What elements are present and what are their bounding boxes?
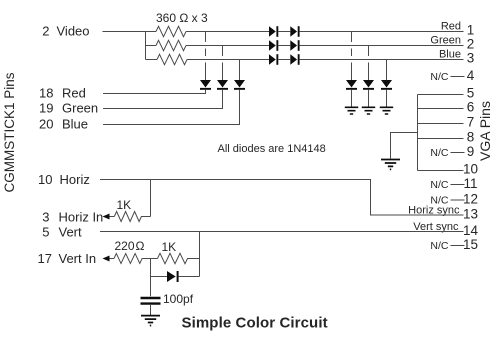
- N/C label pin 9: [430, 147, 449, 159]
- arrow horiz in: [103, 214, 110, 220]
- wire N/C dash pin 9: [451, 152, 465, 154]
- svg-text:360 Ω x 3: 360 Ω x 3: [156, 11, 208, 25]
- svg-text:N/C: N/C: [430, 179, 449, 191]
- wire vert right leg: [199, 232, 201, 277]
- N/C label pin 4: [430, 71, 449, 83]
- pin number 15: [463, 237, 478, 252]
- svg-text:All diodes are 1N4148: All diodes are 1N4148: [218, 143, 326, 155]
- clamp diode line1: [346, 80, 357, 90]
- wire clamp diode3 to ground: [386, 90, 388, 107]
- pin number 3: [467, 51, 475, 66]
- wire drop to clamp diode line2: [368, 46, 370, 81]
- pin number 11: [463, 176, 477, 191]
- svg-text:3: 3: [467, 51, 475, 66]
- diode pair line3: [269, 54, 300, 65]
- svg-text:18: 18: [39, 85, 53, 100]
- pin number 13: [463, 207, 478, 222]
- arrow vert in: [103, 256, 110, 262]
- ground (cap): [141, 316, 160, 326]
- wire between diode pair line1: [278, 31, 290, 33]
- net label Horiz sync: [408, 204, 460, 216]
- title Simple Color Circuit: [182, 315, 328, 332]
- svg-text:7: 7: [467, 115, 475, 130]
- svg-text:1: 1: [467, 23, 475, 38]
- wire line3 to VGA pin3: [300, 59, 464, 61]
- side label VGA Pins: [477, 101, 493, 161]
- value label 360 ohm x 3: [156, 11, 208, 25]
- wire drop to diode D1 (dashed over crossings): [205, 32, 207, 81]
- svg-text:2: 2: [42, 23, 49, 38]
- svg-text:Vert: Vert: [59, 224, 83, 239]
- wire between diode pair line2: [278, 45, 290, 47]
- pin label 17 Vert In: [38, 251, 97, 266]
- value label 1K (horiz): [117, 198, 132, 212]
- svg-text:Horiz In: Horiz In: [59, 210, 104, 225]
- svg-text:Green: Green: [62, 100, 98, 115]
- svg-text:19: 19: [39, 100, 53, 115]
- wire cap top lead: [150, 277, 152, 297]
- svg-text:4: 4: [467, 68, 475, 83]
- svg-text:Vert In: Vert In: [59, 251, 97, 266]
- pin number 7: [467, 115, 475, 130]
- wire pin 6: [418, 108, 464, 110]
- pin number 10: [463, 162, 478, 177]
- wire horiz line: [100, 180, 464, 216]
- value label 220 ohm: [115, 239, 145, 253]
- diode (vert clamp): [167, 271, 179, 282]
- resistor 220: [114, 254, 158, 264]
- pin label 10 Horiz: [38, 172, 90, 187]
- svg-text:N/C: N/C: [430, 147, 449, 159]
- wire N/C dash pin 15: [451, 245, 465, 247]
- wire video feed bus: [145, 32, 147, 60]
- wire N/C dash pin 11: [451, 184, 465, 186]
- pin label 20 Blue: [39, 116, 88, 131]
- svg-text:13: 13: [463, 207, 478, 222]
- clamp diode line3: [381, 80, 392, 90]
- clamp diode line2: [363, 80, 374, 90]
- pin number 8: [467, 130, 475, 145]
- diode D3 (to pin 20 Blue): [234, 80, 245, 90]
- N/C label pin 15: [430, 240, 449, 252]
- wire drop to diode D3: [239, 60, 241, 81]
- pin label 19 Green: [39, 100, 98, 115]
- wire video line: [103, 31, 157, 33]
- net label Red: [441, 20, 461, 32]
- wire line1 to VGA pin1: [300, 31, 464, 33]
- svg-text:11: 11: [463, 176, 477, 191]
- wire drop to clamp diode line1 (dashed over crossings): [351, 32, 353, 81]
- wire pin 10: [418, 170, 464, 172]
- svg-text:Blue: Blue: [62, 116, 88, 131]
- wire line2 to VGA pin2: [300, 45, 464, 47]
- svg-text:Horiz: Horiz: [60, 172, 90, 187]
- side label CGMMSTICK1 Pins: [2, 72, 17, 192]
- net label Green: [430, 34, 461, 46]
- pin number 5: [467, 86, 475, 101]
- svg-text:6: 6: [467, 100, 475, 115]
- wire R3 lead: [146, 59, 158, 61]
- svg-text:Red: Red: [441, 20, 461, 32]
- svg-text:8: 8: [467, 130, 475, 145]
- wire pin 7: [418, 123, 464, 125]
- wire line1 after resistor: [186, 31, 269, 33]
- svg-text:Blue: Blue: [439, 48, 461, 60]
- wire N/C dash pin 4: [451, 76, 465, 78]
- ground (clamp line2): [362, 107, 375, 114]
- diode D2 (to pin 19 Green): [217, 80, 228, 90]
- svg-text:CGMMSTICK1 Pins: CGMMSTICK1 Pins: [2, 72, 17, 192]
- wire clamp diode1 to ground: [351, 90, 353, 107]
- svg-text:220 Ω: 220 Ω: [115, 239, 145, 253]
- resistor 1K (vert): [158, 253, 200, 263]
- wire clamp diode row: [151, 259, 200, 277]
- wire diode D3 to Blue line: [103, 90, 240, 125]
- pin number 14: [463, 223, 479, 238]
- svg-text:1K: 1K: [117, 198, 132, 212]
- wire vert line: [100, 231, 464, 233]
- wire diode D1 to Red line: [103, 90, 206, 94]
- svg-text:10: 10: [38, 172, 52, 187]
- svg-text:Simple Color Circuit: Simple Color Circuit: [182, 315, 328, 332]
- wire line2 after resistor: [186, 45, 269, 47]
- wire bus ground branch: [391, 133, 418, 159]
- wire horiz tap: [150, 180, 152, 217]
- resistor 360 (blue line): [157, 54, 187, 64]
- svg-text:100pf: 100pf: [163, 292, 194, 306]
- svg-text:5: 5: [467, 86, 475, 101]
- svg-text:20: 20: [39, 116, 53, 131]
- wire R2 lead: [146, 45, 157, 47]
- resistor 1K (horiz in): [114, 212, 150, 222]
- net label Blue: [439, 48, 461, 60]
- diode pair line1: [269, 26, 300, 37]
- svg-text:3: 3: [42, 210, 49, 225]
- wire N/C dash pin 12: [451, 199, 465, 201]
- ground (clamp line3): [380, 107, 393, 114]
- wire drop to clamp diode line3: [386, 60, 388, 81]
- pin number 12: [463, 192, 478, 207]
- wire horiz in arrow lead: [104, 216, 114, 218]
- capacitor 100pf: [141, 298, 161, 304]
- svg-text:1K: 1K: [162, 240, 177, 254]
- svg-text:Green: Green: [430, 34, 461, 46]
- pin number 1: [467, 23, 475, 38]
- svg-text:Video: Video: [57, 23, 90, 38]
- svg-text:10: 10: [463, 162, 478, 177]
- svg-text:5: 5: [42, 224, 49, 239]
- value label 1K (vert): [162, 240, 177, 254]
- ground (VGA bus): [381, 160, 400, 170]
- svg-text:VGA Pins: VGA Pins: [477, 101, 493, 161]
- value label 100pf: [163, 292, 194, 306]
- wire pin 5: [418, 94, 464, 96]
- N/C label pin 12: [430, 195, 449, 207]
- resistor 360 (red line): [156, 26, 186, 36]
- net label Vert sync: [413, 221, 459, 233]
- pin label 18 Red: [39, 85, 86, 100]
- svg-text:14: 14: [463, 223, 479, 238]
- wire pin 8: [418, 138, 464, 140]
- ground (clamp line1): [345, 107, 358, 114]
- pin number 2: [467, 37, 475, 52]
- svg-text:N/C: N/C: [430, 240, 449, 252]
- svg-text:15: 15: [463, 237, 478, 252]
- resistor 360 (green line): [156, 40, 186, 50]
- pin label 3 Horiz In: [42, 210, 103, 225]
- svg-text:N/C: N/C: [430, 71, 449, 83]
- pin number 4: [467, 68, 475, 83]
- wire between diode pair line3: [278, 59, 290, 61]
- svg-text:2: 2: [467, 37, 475, 52]
- pin label 2 Video: [42, 23, 89, 38]
- wire line3 after resistor: [187, 59, 269, 61]
- wire drop to diode D2: [222, 46, 224, 81]
- svg-text:17: 17: [38, 251, 52, 266]
- note label: All diodes are 1N4148: [218, 143, 326, 155]
- N/C label pin 11: [430, 179, 449, 191]
- wire clamp diode2 to ground: [368, 90, 370, 107]
- svg-text:Red: Red: [62, 85, 86, 100]
- diode D1 (to pin 18 Red): [200, 80, 211, 90]
- wire vert in arrow lead: [104, 258, 114, 260]
- wire diode D2 to Green line: [103, 90, 223, 109]
- pin label 5 Vert: [42, 224, 82, 239]
- svg-text:12: 12: [463, 192, 478, 207]
- pin number 9: [467, 144, 475, 159]
- wire cap bottom lead: [150, 305, 152, 315]
- pin number 6: [467, 100, 475, 115]
- svg-text:9: 9: [467, 144, 475, 159]
- diode pair line2: [269, 40, 300, 51]
- wire VGA ground bus: [417, 95, 419, 171]
